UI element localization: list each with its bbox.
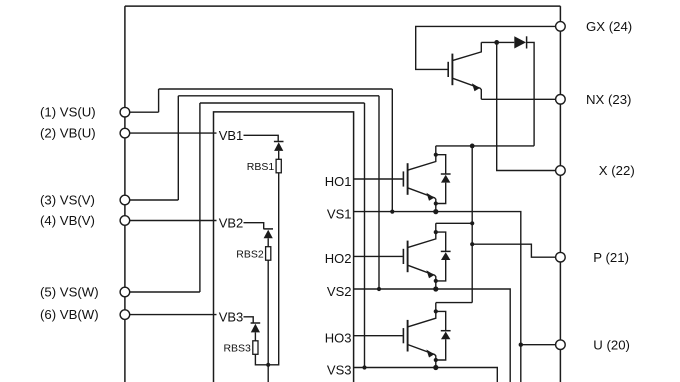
svg-text:VB3: VB3 (219, 310, 244, 325)
transistor Q2 emitter arrow (426, 270, 434, 278)
junction VS2 / VS(V) riser (377, 287, 381, 291)
package outline top edge (125, 5, 561, 7)
svg-text:VB2: VB2 (219, 215, 244, 230)
junction VS1 / VS(U) riser (390, 210, 394, 214)
junction P bus / P branch (470, 242, 474, 246)
junction Q3 emitter to VS3 (433, 365, 438, 370)
wire pin3 VS(V) to riser (125, 199, 178, 201)
wire VB3 to bootstrap diode (244, 317, 254, 323)
svg-text:U (20): U (20) (593, 337, 630, 352)
transistor Q3 gate bar (402, 328, 404, 343)
svg-text:(6) VB(W): (6) VB(W) (40, 307, 99, 322)
svg-text:(4) VB(V): (4) VB(V) (40, 213, 95, 228)
junction Q1 collector (434, 153, 438, 157)
wire pin1 VS(U) to riser (125, 111, 159, 113)
pin 5 VS(W) (120, 287, 130, 297)
transistor Q3 body bar (407, 320, 409, 352)
transistor Q2 body bar (407, 241, 409, 273)
pin 22 X (556, 166, 566, 176)
transistor Q4 emitter lead (452, 78, 481, 99)
brake diode DX (514, 36, 526, 48)
transistor Q1 gate bar (402, 171, 404, 186)
wire VS(W) riser right down to VS3 (364, 103, 366, 368)
svg-text:(1) VS(U): (1) VS(U) (40, 105, 96, 120)
wire VS1 run to U turn (354, 212, 521, 382)
wire VS(W) riser left (199, 103, 201, 292)
svg-text:VS2: VS2 (327, 284, 352, 299)
junction Q2 emitter/diode (434, 279, 438, 283)
resistor RBS1 (276, 159, 281, 173)
svg-text:RBS1: RBS1 (247, 161, 275, 173)
transistor Q3 collector lead (408, 303, 436, 327)
transistor Q4 gate bar (447, 62, 449, 77)
transistor Q3 emitter arrow (426, 350, 434, 358)
wire pin4 VB(V) into IC (125, 220, 217, 222)
wire P bus top horizontal (436, 145, 534, 147)
svg-text:(2) VB(U): (2) VB(U) (40, 126, 96, 141)
wire diode to resistor RBS2 (267, 238, 269, 246)
pin 21 P (556, 252, 566, 262)
transistor Q1 emitter arrow (426, 193, 434, 201)
wire VCC rail down (267, 365, 269, 382)
pin 23 NX (556, 95, 566, 105)
junction Q4 collector / X node (494, 40, 499, 45)
svg-text:NX (23): NX (23) (586, 92, 631, 107)
junction Q3 collector (434, 309, 438, 313)
junction VCC rail (266, 363, 270, 367)
freewheel diode D2 (436, 232, 451, 281)
wire VS(U) top run (159, 88, 393, 90)
junction Q3 emitter/diode (434, 358, 438, 362)
svg-text:P (21): P (21) (593, 250, 629, 265)
wire VS(W) top run (200, 102, 365, 104)
junction U output (519, 343, 523, 347)
svg-text:GX (24): GX (24) (586, 19, 632, 34)
wire P bus vertical (471, 146, 473, 303)
wire RBS1 down to VCC rail (268, 173, 279, 365)
resistor RBS2 (266, 247, 271, 261)
wire RBS3 down to VCC rail (255, 354, 268, 365)
transistor Q2 emitter lead (408, 265, 436, 289)
wire VB2 to bootstrap diode (244, 223, 264, 229)
pin 20 U (556, 340, 566, 350)
bootstrap diode DBS3 (251, 322, 261, 324)
junction Q2 emitter to VS2 (433, 286, 438, 291)
pin 24 GX (556, 22, 566, 32)
svg-text:HO3: HO3 (325, 331, 352, 346)
wire diode to resistor RBS1 (278, 151, 280, 159)
transistor Q2 collector lead (408, 223, 436, 247)
transistor Q4 body bar (451, 54, 453, 86)
wire P branch to pin P (472, 244, 560, 257)
freewheel diode D3 (436, 311, 451, 360)
transistor Q4 collector lead (452, 42, 481, 60)
package outline left edge (124, 6, 126, 382)
pin 1 VS(U) (120, 107, 130, 117)
freewheel diode D1 (436, 155, 451, 204)
svg-text:VB1: VB1 (219, 128, 244, 143)
svg-text:RBS3: RBS3 (223, 342, 251, 354)
wire U node to pin U (521, 344, 561, 346)
bootstrap diode DBS2 (263, 228, 273, 230)
wire HO2 gate lead (354, 255, 403, 257)
wire VB1 to bootstrap diode (244, 135, 279, 141)
junction Q1 emitter to VS1 (433, 209, 438, 214)
junction Q2 collector (434, 230, 438, 234)
wire VS(V) top run (178, 95, 379, 97)
junction P bus / Q2 collector (470, 221, 474, 225)
bootstrap diode DBS1 (274, 141, 284, 143)
gate driver IC box (214, 112, 354, 382)
svg-text:(3) VS(V): (3) VS(V) (40, 192, 95, 207)
pin 4 VB(V) (120, 216, 130, 226)
svg-text:HO2: HO2 (325, 251, 352, 266)
svg-text:VS3: VS3 (327, 362, 352, 377)
transistor Q3 emitter lead (408, 345, 436, 368)
wire VS3 run down (354, 368, 498, 382)
transistor Q4 emitter arrow (472, 83, 480, 91)
pin 6 VB(W) (120, 310, 130, 320)
wire Q4 emitter to pin NX (481, 98, 560, 100)
transistor Q2 gate bar (402, 249, 404, 264)
resistor RBS3 (253, 341, 258, 355)
transistor Q1 emitter lead (408, 188, 436, 212)
wire diode to resistor RBS3 (254, 332, 256, 340)
transistor Q1 collector lead (408, 146, 436, 170)
svg-text:VS1: VS1 (327, 206, 352, 221)
wire VS(U) riser right down to VS1 (391, 89, 393, 212)
wire HO3 gate lead (354, 335, 403, 337)
wire P bus to Q3 collector (436, 302, 472, 304)
wire VS(U) riser left (158, 89, 160, 112)
svg-text:X (22): X (22) (599, 163, 635, 178)
wire VS(V) riser left (177, 96, 179, 200)
wire VS2 run down (354, 289, 511, 382)
wire X node down to pin X (497, 42, 561, 170)
wire RBS2 down to VCC rail (267, 260, 269, 365)
pin 2 VB(U) (120, 128, 130, 138)
wire pin6 VB(W) into IC (125, 314, 217, 316)
package outline right edge (559, 6, 561, 382)
wire Q4 collector run (481, 41, 514, 43)
svg-text:RBS2: RBS2 (236, 248, 264, 260)
wire VS(V) riser right down to VS2 (378, 96, 380, 289)
wire pin2 VB(U) into IC (125, 132, 217, 134)
svg-text:HO1: HO1 (325, 174, 352, 189)
svg-text:(5) VS(W): (5) VS(W) (40, 284, 99, 299)
wire HO1 gate lead (354, 178, 403, 180)
wire Q2 collector to P bus (436, 222, 472, 224)
transistor Q1 body bar (407, 163, 409, 195)
pin 3 VS(V) (120, 195, 130, 205)
wire brake diode cathode to P bus (527, 42, 535, 145)
junction P bus top (470, 144, 475, 149)
wire pin5 VS(W) to riser (125, 291, 200, 293)
wire pin GX to Q4 gate (416, 26, 561, 69)
junction VS3 / VS(W) riser (362, 365, 366, 369)
junction Q1 emitter/diode (434, 201, 438, 205)
